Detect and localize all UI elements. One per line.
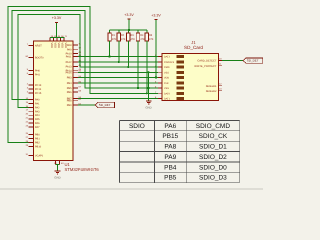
svg-text:SD_DET: SD_DET <box>99 103 111 107</box>
svg-text:GND: GND <box>54 176 60 180</box>
svg-text:SHIELD1: SHIELD1 <box>206 85 217 88</box>
svg-text:PA5: PA5 <box>35 118 40 121</box>
svg-text:PC13: PC13 <box>35 84 42 87</box>
svg-text:DAT0: DAT0 <box>164 92 171 95</box>
svg-text:SDIO_CK: SDIO_CK <box>199 133 228 140</box>
svg-text:PB4: PB4 <box>164 164 177 171</box>
svg-text:VCAP1: VCAP1 <box>35 155 44 158</box>
svg-text:PA2: PA2 <box>35 106 40 109</box>
svg-text:+3.3V: +3.3V <box>124 13 134 17</box>
svg-text:PA13: PA13 <box>66 65 73 68</box>
svg-text:PB0: PB0 <box>35 134 40 137</box>
svg-text:PA8: PA8 <box>164 144 176 151</box>
svg-text:PC14: PC14 <box>35 88 42 91</box>
svg-text:SD_DET: SD_DET <box>247 59 259 63</box>
svg-text:PB8: PB8 <box>67 100 72 103</box>
svg-text:PA4: PA4 <box>35 114 40 117</box>
svg-text:WRITE_PROTECT: WRITE_PROTECT <box>194 65 217 68</box>
svg-text:PB9: PB9 <box>67 104 72 107</box>
svg-text:PA12: PA12 <box>66 61 73 64</box>
svg-text:VDD: VDD <box>57 43 60 49</box>
svg-text:PA6: PA6 <box>164 123 176 130</box>
svg-text:VSS: VSS <box>164 87 169 90</box>
svg-text:GND: GND <box>145 106 151 110</box>
svg-text:SDIO_CMD: SDIO_CMD <box>196 123 231 130</box>
svg-text:PA3: PA3 <box>35 110 40 113</box>
svg-text:SDIO_D3: SDIO_D3 <box>199 175 227 182</box>
svg-text:+3.3V: +3.3V <box>52 16 62 20</box>
svg-text:PA11: PA11 <box>66 56 72 59</box>
svg-text:VSS: VSS <box>164 71 169 74</box>
svg-text:VDD: VDD <box>164 77 169 80</box>
svg-text:PB5: PB5 <box>164 175 177 182</box>
svg-text:PB2: PB2 <box>35 142 40 145</box>
svg-text:CLK: CLK <box>164 82 169 85</box>
svg-text:+3.3V: +3.3V <box>151 13 161 17</box>
svg-text:NRST: NRST <box>35 45 42 48</box>
svg-text:PA9: PA9 <box>67 48 72 51</box>
svg-text:BOOT0: BOOT0 <box>35 57 44 60</box>
svg-text:PH1: PH1 <box>35 74 40 77</box>
svg-text:47K: 47K <box>140 38 145 41</box>
svg-text:PB4: PB4 <box>67 82 72 85</box>
svg-text:CD/DAT3: CD/DAT3 <box>164 61 175 64</box>
svg-text:PA9: PA9 <box>164 154 176 161</box>
svg-text:SD_Card: SD_Card <box>184 45 203 50</box>
svg-text:PB15: PB15 <box>162 133 178 140</box>
svg-text:47K: 47K <box>131 38 136 41</box>
svg-text:SDIO: SDIO <box>129 123 145 130</box>
svg-text:47K: 47K <box>112 38 117 41</box>
svg-text:CMD: CMD <box>164 66 170 69</box>
svg-text:SDIO_D1: SDIO_D1 <box>199 144 227 151</box>
svg-text:SDIO_D2: SDIO_D2 <box>199 154 227 161</box>
svg-text:CARD_DETECT: CARD_DETECT <box>197 60 217 63</box>
svg-text:47K: 47K <box>149 38 154 41</box>
svg-text:PA0: PA0 <box>35 99 40 102</box>
svg-text:47K: 47K <box>121 38 126 41</box>
svg-text:DAT2: DAT2 <box>164 56 171 59</box>
svg-text:PB6: PB6 <box>67 91 72 94</box>
svg-text:VDD: VDD <box>54 43 57 49</box>
svg-text:PB5: PB5 <box>67 87 72 90</box>
svg-text:PB1: PB1 <box>35 138 40 141</box>
svg-text:SHIELD2: SHIELD2 <box>206 90 217 93</box>
svg-text:VDD: VDD <box>61 43 64 49</box>
svg-text:SDIO_D0: SDIO_D0 <box>199 164 227 171</box>
svg-text:VDD: VDD <box>50 43 53 49</box>
svg-text:PB10: PB10 <box>35 146 42 149</box>
svg-text:PB3: PB3 <box>67 77 72 80</box>
svg-text:PA1: PA1 <box>35 103 40 106</box>
svg-text:DAT1: DAT1 <box>164 98 171 101</box>
svg-text:VDD: VDD <box>64 43 67 49</box>
svg-text:PA15: PA15 <box>66 71 73 74</box>
svg-text:PA7: PA7 <box>35 126 40 129</box>
svg-text:PA6: PA6 <box>35 122 40 125</box>
svg-text:PC15: PC15 <box>35 92 42 95</box>
svg-text:PH0: PH0 <box>35 70 40 73</box>
svg-text:STM32F405RGT6: STM32F405RGT6 <box>65 167 100 172</box>
